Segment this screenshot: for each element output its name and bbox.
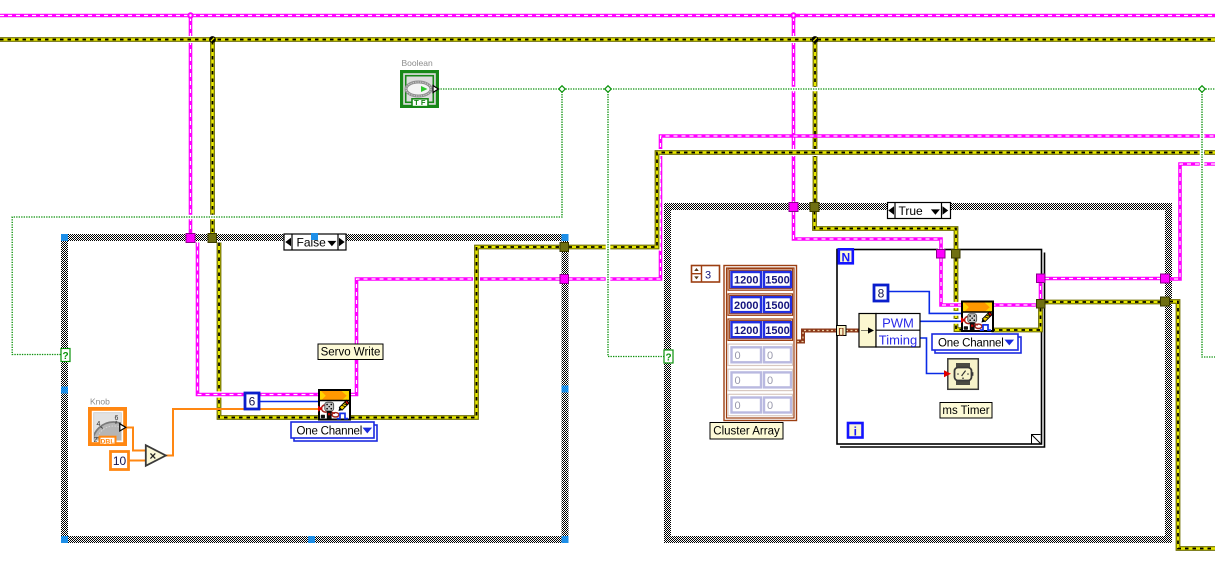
wire resource loop tunnel to True right tunnel (1045, 277, 1161, 281)
Boolean control (402, 72, 439, 108)
junction diamond green at x=1202 (1199, 86, 1206, 93)
ms Timer wait function (948, 359, 979, 390)
ring constant One Channel (True case) (932, 334, 1021, 353)
wire blue PWM output to servo write (920, 319, 961, 324)
wire resource False right tunnel to right edge (569, 136, 1215, 279)
junction dot pink at x=190 (187, 12, 193, 18)
tunnel pink loop top (937, 250, 946, 259)
wire resource P1 top horizontal full width (0, 14, 1215, 18)
tunnel pink False top (186, 234, 195, 243)
svg-text:Servo Write: Servo Write (321, 347, 381, 359)
wire boolean from Boolean control to right edge (438, 87, 1215, 92)
wire orange multiply output to servo write (166, 409, 318, 456)
case structure False: hatched border bottom (61, 536, 569, 543)
svg-text:3: 3 (705, 270, 711, 282)
svg-text:2000: 2000 (734, 300, 758, 312)
PWM Timing unbundle node (859, 314, 920, 348)
wire error True right tunnel to bottom right edge (1170, 302, 1215, 549)
junction diamond green at x=562 (559, 86, 566, 93)
wire resource branch down to True top tunnel (792, 17, 796, 203)
case label True (888, 203, 951, 219)
wire blue Timing output to ms Timer (920, 338, 944, 374)
svg-text:N: N (841, 250, 850, 264)
svg-text:6: 6 (249, 395, 256, 409)
junction dot pink at x=793 (790, 12, 796, 18)
tunnel pink False right (560, 275, 569, 284)
label Servo Write (318, 344, 383, 360)
cluster row 5: 0 0 (728, 369, 793, 390)
tunnel pink True right (1161, 274, 1170, 283)
wire error loop tunnel to True right tunnel (1045, 300, 1161, 305)
svg-text:0: 0 (767, 350, 773, 362)
tunnel olive loop top (952, 250, 961, 259)
Knob control (90, 409, 135, 464)
for loop: shadow border (840, 253, 1045, 448)
junction dot olive at x=815 (812, 36, 819, 43)
tunnel olive True right (1161, 297, 1170, 306)
case selector ? False (61, 349, 70, 362)
svg-text:1200: 1200 (734, 325, 758, 337)
wire error into True case to loop tunnel (815, 211, 957, 250)
wire resource branch down to False top tunnel (189, 17, 193, 234)
cluster row 1: 1200 1500 (728, 269, 793, 290)
label ms Timer (940, 403, 992, 419)
wire resource servo write False to right tunnel (351, 279, 560, 395)
tunnel olive False top (208, 234, 217, 243)
tunnel olive False right (560, 243, 569, 252)
case structure True: interior (664, 203, 1172, 543)
svg-text:4: 4 (97, 421, 101, 428)
svg-text:×: × (149, 451, 156, 463)
wire brown loop tunnel to PWM node (846, 329, 860, 333)
svg-text:?: ? (62, 351, 68, 362)
svg-text:1500: 1500 (765, 300, 789, 312)
case structure True: hatched border left (664, 203, 671, 543)
cluster array shell (724, 266, 797, 421)
svg-text:0: 0 (735, 375, 741, 387)
case structure False: hatched border left (61, 234, 68, 543)
tunnel olive True top (810, 203, 819, 212)
svg-text:8: 8 (878, 287, 885, 301)
for loop: main border (837, 250, 1042, 445)
wire resource into True case to loop tunnel (794, 211, 942, 250)
svg-text:DBL: DBL (101, 438, 115, 445)
tunnel pink loop right (1037, 274, 1046, 283)
wire orange knob to multiply (126, 428, 146, 451)
case label False (284, 234, 346, 250)
cluster row 2: 2000 1500 (728, 294, 793, 315)
svg-text:i: i (854, 424, 857, 438)
ring constant One Channel (False case) (291, 422, 377, 441)
servo write node (False case) (318, 390, 350, 420)
wire resource from right edge into True right tunnel (1170, 164, 1215, 279)
cluster row 6: 0 0 (728, 394, 793, 415)
wire resource inside loop into servo write True (941, 258, 962, 305)
wire brown cluster array to loop tunnel (797, 331, 837, 342)
label Cluster Array (710, 423, 783, 440)
svg-text:[]: [] (839, 327, 845, 336)
selection handles on False structure (61, 233, 569, 543)
svg-text:0: 0 (735, 400, 741, 412)
wire boolean branch to False case selector (12, 89, 562, 355)
junction dot olive at x=212 (209, 36, 216, 43)
case structure False: interior (61, 234, 569, 543)
constant 10 (111, 452, 129, 470)
svg-text:Timing: Timing (879, 333, 918, 348)
wire error False right tunnel to right edge (569, 153, 1215, 248)
svg-text:1200: 1200 (734, 275, 758, 287)
cluster row 4: 0 0 (728, 344, 793, 365)
svg-text:?: ? (665, 352, 671, 363)
case structure True: hatched border right (1165, 203, 1172, 543)
svg-text:10: 10 (113, 454, 127, 468)
cluster row 3: 1200 1500 (728, 319, 793, 340)
constant 8 (874, 285, 888, 301)
junction diamond green at x=608 (605, 86, 612, 93)
svg-text:Boolean: Boolean (402, 58, 433, 68)
svg-text:One Channel: One Channel (938, 337, 1004, 349)
tunnel olive loop right (1037, 300, 1046, 309)
case structure False: hatched border top (61, 234, 569, 241)
for loop i terminal (848, 423, 863, 438)
wire error into servo write False (219, 243, 318, 418)
for loop fold notch bottom-right (1032, 435, 1041, 444)
wire error inside loop into servo write True (956, 258, 962, 330)
for loop N terminal (839, 249, 853, 263)
tunnel auto-index loop left (837, 326, 847, 336)
wire orange constant 10 to multiply (129, 460, 146, 462)
svg-text:PWM: PWM (882, 316, 914, 331)
wire blue constant 6 to servo write (260, 401, 318, 403)
svg-text:Knob: Knob (90, 397, 110, 407)
wire error O1 top horizontal full width (0, 36, 1215, 43)
wire error branch down to False top tunnel (210, 41, 215, 234)
svg-text:0: 0 (767, 400, 773, 412)
case structure True: hatched border bottom (664, 536, 1172, 543)
wire resource into servo write False (198, 243, 319, 395)
wire boolean branch to right edge (1202, 89, 1215, 357)
svg-text:One Channel: One Channel (297, 425, 363, 437)
svg-text:T F: T F (414, 98, 426, 107)
svg-text:ms Timer: ms Timer (942, 405, 989, 417)
wire blue constant 8 to servo write (889, 292, 961, 314)
multiply function (146, 445, 166, 466)
red feed arrow into ms Timer (944, 370, 951, 377)
wire boolean branch to True case selector (608, 89, 664, 357)
svg-text:Cluster Array: Cluster Array (713, 426, 780, 438)
wire resource servo write True to loop right tunnel (992, 282, 1041, 305)
case structure False: hatched border right (562, 234, 569, 543)
svg-text:0: 0 (767, 375, 773, 387)
wire error servo write True to loop right tunnel (992, 308, 1041, 330)
constant 6 (245, 393, 259, 409)
case selector ? True (664, 350, 673, 363)
case structure True: hatched border top (664, 203, 1172, 210)
wire error branch down to True top tunnel (813, 41, 818, 203)
svg-text:1500: 1500 (765, 325, 789, 337)
array index selector 3 (692, 266, 720, 283)
svg-text:0: 0 (735, 350, 741, 362)
svg-text:True: True (899, 204, 924, 218)
servo write node (True case / inside loop) (961, 302, 993, 332)
svg-text:1500: 1500 (765, 275, 789, 287)
wire error servo write False to right tunnel (351, 247, 560, 418)
tunnel pink True top (789, 203, 798, 212)
